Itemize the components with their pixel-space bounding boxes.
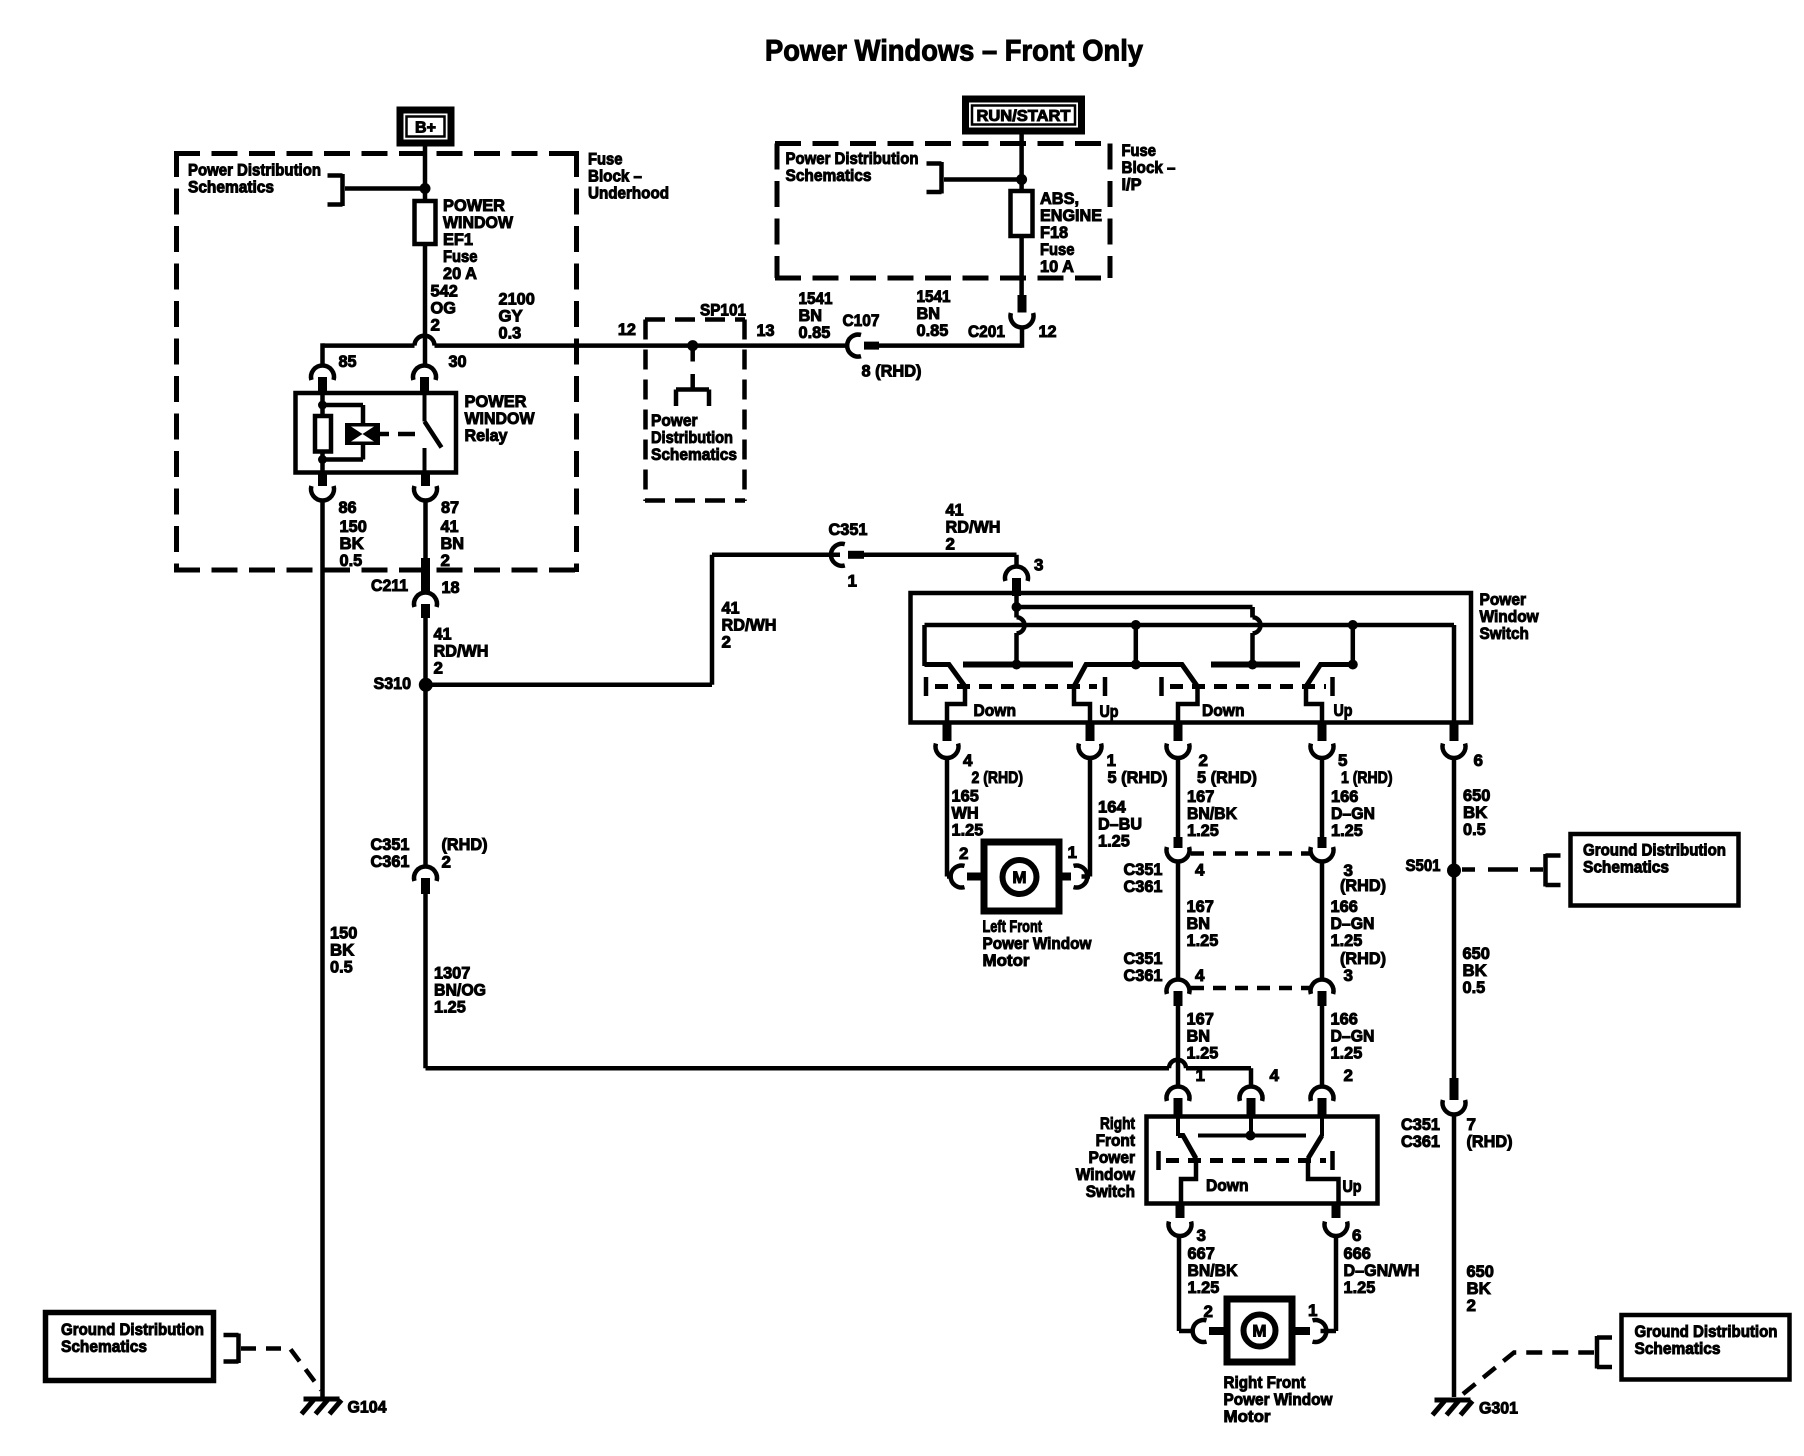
connector C351 C361 row1 left: [1167, 837, 1190, 861]
label wire 41 BN 2: [441, 517, 465, 570]
node junction on B+ wire: [420, 183, 431, 194]
label 8 (RHD): [862, 362, 922, 381]
label wire 166 D-GN 1.25 (mid): [1331, 897, 1375, 950]
svg-text:3: 3: [1344, 966, 1353, 985]
label Fuse Block - I/P: [1122, 141, 1176, 194]
relay box: [296, 393, 457, 473]
dashed link C351 row1: [1191, 851, 1310, 856]
svg-text:6: 6: [1474, 751, 1483, 770]
wire fuse EF1 down to relay pin 30: [423, 244, 428, 366]
wire RF motor to pin 6: [1321, 1236, 1337, 1331]
svg-text:(RHD): (RHD): [1467, 1132, 1513, 1151]
svg-text:1 (RHD): 1 (RHD): [1341, 768, 1393, 787]
label wire 41 RD/WH 2 (branch): [946, 501, 1001, 554]
svg-text:6: 6: [1352, 1226, 1361, 1245]
label Fuse Block - Underhood: [588, 150, 669, 203]
svg-text:G301: G301: [1479, 1399, 1518, 1418]
wire 166 D-GN mid: [1320, 862, 1325, 981]
svg-text:2: 2: [722, 633, 731, 652]
wire C211 to C351 (41 RD/WH): [423, 618, 428, 867]
connector C351 (switch feed): [831, 544, 864, 566]
svg-text:0.5: 0.5: [330, 958, 353, 977]
relay switch contact: [425, 393, 442, 473]
label wire 2100 GY 0.3: [499, 290, 535, 343]
svg-text:4: 4: [1270, 1066, 1280, 1085]
splice SP101 dashed box: [645, 320, 745, 502]
label 2 (RF motor): [1204, 1302, 1213, 1321]
wire corner down to relay pin 85: [320, 343, 325, 366]
svg-text:4: 4: [1195, 966, 1205, 985]
svg-text:5 (RHD): 5 (RHD): [1108, 768, 1168, 787]
label 30: [449, 352, 467, 371]
label wire 150 BK 0.5 (lower): [330, 924, 357, 977]
connector LF motor terminal 2: [951, 866, 985, 888]
crossover hop 1307 over 167: [1169, 1060, 1186, 1069]
svg-text:C351: C351: [829, 520, 868, 539]
connector switch pin 6: [1443, 725, 1466, 758]
svg-text:10 A: 10 A: [1040, 257, 1074, 276]
svg-text:87: 87: [441, 498, 459, 517]
connector RF switch pin 2: [1311, 1087, 1334, 1117]
label 2 (RHD) pin4: [972, 768, 1024, 787]
switch ground bus wire B: [925, 625, 1455, 723]
node ground bus 2: [1348, 620, 1358, 630]
label 1 (RF pin): [1196, 1066, 1205, 1085]
connector C351 C361 (41 RD/WH): [414, 867, 437, 894]
label wire 41 RD/WH 2 (riser): [722, 599, 777, 652]
label 4 (RF pin): [1270, 1066, 1280, 1085]
switch bridge blade (up-down): [1074, 665, 1198, 727]
svg-text:Relay: Relay: [465, 426, 509, 445]
wire relay 87 down: [423, 501, 428, 563]
label Down (RF): [1206, 1176, 1249, 1195]
switch feed leg left: [1017, 607, 1025, 665]
svg-text:1: 1: [1196, 1066, 1205, 1085]
svg-text:1.25: 1.25: [1187, 931, 1219, 950]
label 3 (switch pin): [1034, 556, 1043, 575]
RF motor box: [1227, 1299, 1292, 1362]
label 1 (RHD) pin5: [1341, 768, 1393, 787]
label wire 167 BN 1.25 (mid): [1187, 897, 1219, 950]
svg-text:2: 2: [442, 853, 451, 872]
label Power Distribution Schematics (I/P): [786, 149, 919, 185]
label 12 (C201): [1039, 322, 1057, 341]
connector switch pin 5: [1311, 725, 1334, 758]
svg-text:1.25: 1.25: [1098, 832, 1130, 851]
wire 150 BK relay 86 to G104: [320, 501, 325, 1398]
label wire 650 BK 0.5 (S501): [1463, 944, 1490, 997]
svg-text:C361: C361: [1401, 1132, 1440, 1151]
label wire 1307 BN/OG 1.25: [434, 964, 486, 1017]
svg-text:Underhood: Underhood: [588, 184, 669, 203]
svg-text:1: 1: [1068, 843, 1077, 862]
switch blade left (down): [925, 665, 966, 727]
svg-text:1.25: 1.25: [1344, 1278, 1376, 1297]
svg-text:2: 2: [1467, 1296, 1476, 1315]
svg-text:1.25: 1.25: [1188, 1278, 1220, 1297]
connector RF motor terminal 2: [1193, 1320, 1228, 1342]
connector C351 C361 (650 BK): [1443, 1078, 1466, 1114]
wire switch pin 6 to S501: [1452, 758, 1457, 867]
label C211: [371, 576, 408, 595]
label SP101: [700, 301, 746, 320]
switch ground stub 2: [1351, 625, 1356, 665]
label S310: [374, 674, 412, 693]
relay coil resistor: [315, 416, 331, 452]
switch fixed contact bar down-right: [1211, 662, 1300, 668]
label 5 (RHD) pin2: [1197, 768, 1257, 787]
svg-text:12: 12: [1039, 322, 1057, 341]
svg-text:C361: C361: [1124, 877, 1163, 896]
svg-text:1: 1: [1308, 1301, 1317, 1320]
label 87: [441, 498, 459, 517]
svg-text:Schematics: Schematics: [651, 445, 737, 464]
wire fuse F18 down to C201: [1019, 236, 1024, 296]
svg-text:1.25: 1.25: [1187, 1044, 1219, 1063]
relay coil branch wires: [323, 393, 364, 473]
label wire 667 BN/BK 1.25: [1188, 1244, 1239, 1297]
dashed wire to G301: [1463, 1353, 1594, 1395]
label 1 (RF motor): [1308, 1301, 1317, 1320]
connector relay pin 87: [414, 473, 437, 501]
connector C351 C361 row2 right: [1311, 980, 1334, 1006]
svg-text:C361: C361: [371, 852, 410, 871]
label (RHD) 2: [442, 835, 488, 872]
RF switch blade left: [1178, 1117, 1196, 1204]
svg-text:30: 30: [449, 352, 467, 371]
svg-text:2: 2: [1204, 1302, 1213, 1321]
svg-text:86: 86: [339, 498, 357, 517]
RF motor M circle: [1244, 1315, 1276, 1347]
label 2 (RF pin): [1344, 1066, 1353, 1085]
svg-text:85: 85: [339, 352, 357, 371]
connector RF switch pin 4: [1239, 1087, 1262, 1117]
label wire 166 D-GN 1.25: [1331, 787, 1375, 840]
svg-text:Down: Down: [1206, 1176, 1249, 1195]
svg-text:Switch: Switch: [1480, 624, 1529, 643]
label wire 1541 BN 0.85 (left): [799, 289, 833, 342]
wire horizontal feed to SP101: [323, 343, 849, 348]
label C351 C361 row2: [1124, 949, 1163, 985]
label Power Distribution Schematics (underhood): [188, 161, 321, 197]
svg-text:(RHD): (RHD): [1340, 876, 1386, 895]
label (RHD) 3 row2: [1340, 949, 1386, 985]
node ground stub 1 contact: [1131, 660, 1141, 670]
label Down (right): [1202, 701, 1245, 720]
label G104: [348, 1398, 388, 1417]
label wire 165 WH 1.25: [952, 787, 984, 840]
label 4 (row2): [1195, 966, 1205, 985]
label Ground Distribution Schematics (S501): [1583, 841, 1726, 877]
wire 166 D-GN lower: [1320, 1006, 1325, 1087]
svg-text:2: 2: [959, 844, 968, 863]
connector RF motor terminal 1: [1291, 1320, 1326, 1342]
ground distribution box (S501): [1571, 834, 1739, 906]
svg-text:3: 3: [1034, 556, 1043, 575]
svg-text:(RHD): (RHD): [442, 835, 488, 854]
svg-text:1.25: 1.25: [952, 821, 984, 840]
svg-text:B+: B+: [415, 120, 436, 137]
wire 1307 BN/OG: [426, 894, 1252, 1087]
label C351 C361 (650 BK): [1401, 1115, 1440, 1151]
svg-text:Switch: Switch: [1086, 1182, 1135, 1201]
power symbol B+ box: [400, 110, 451, 143]
svg-text:Schematics: Schematics: [188, 178, 274, 197]
svg-text:1: 1: [848, 572, 857, 591]
svg-text:SP101: SP101: [700, 301, 746, 320]
svg-text:0.5: 0.5: [340, 551, 363, 570]
label Down (left): [974, 701, 1017, 720]
svg-text:1.25: 1.25: [1331, 931, 1363, 950]
label wire 166 D-GN 1.25 (low): [1331, 1010, 1375, 1063]
svg-text:C201: C201: [968, 322, 1005, 341]
svg-text:Schematics: Schematics: [786, 166, 872, 185]
svg-text:Motor: Motor: [1224, 1407, 1271, 1426]
wire bracket to RUN/START node: [944, 177, 1022, 182]
svg-text:M: M: [1252, 1322, 1266, 1341]
svg-text:1.25: 1.25: [434, 998, 466, 1017]
label Up (RF): [1343, 1177, 1362, 1196]
svg-text:Motor: Motor: [983, 951, 1030, 970]
svg-text:Up: Up: [1334, 701, 1353, 720]
connector RF switch pin 3: [1169, 1206, 1192, 1236]
node down contact right: [1248, 660, 1258, 670]
label wire 167 BN 1.25 (low): [1187, 1010, 1219, 1063]
label wire 1541 BN 0.85 (right): [917, 287, 951, 340]
svg-text:Schematics: Schematics: [1583, 858, 1669, 877]
label 3 (RF pin): [1197, 1226, 1206, 1245]
bracket from ground box (G104): [224, 1334, 239, 1364]
RF switch blade right: [1308, 1117, 1339, 1204]
label 1 (C351): [848, 572, 857, 591]
svg-text:0.5: 0.5: [1463, 978, 1486, 997]
label 13 (SP101 right): [757, 321, 775, 340]
svg-text:18: 18: [442, 578, 460, 597]
connector switch pin 2: [1167, 725, 1190, 758]
bracket to power distribution schematics (underhood): [328, 174, 343, 206]
title: [765, 35, 1143, 68]
label wire 150 BK 0.5 (top): [340, 517, 367, 570]
connector switch pin 4: [935, 725, 958, 758]
ground distribution box (G301): [1622, 1315, 1790, 1380]
svg-text:0.85: 0.85: [799, 323, 831, 342]
label Ground Distribution Schematics (G104): [61, 1320, 204, 1356]
svg-text:M: M: [1012, 868, 1026, 887]
RF switch box: [1147, 1117, 1378, 1204]
label 4 (row1): [1195, 861, 1205, 880]
svg-text:0.3: 0.3: [499, 324, 522, 343]
label 1 (LF motor): [1068, 843, 1077, 862]
connector relay pin 86: [311, 473, 334, 501]
switch blade right (up): [1306, 665, 1353, 727]
relay coil symbol: [345, 423, 380, 445]
label 86: [339, 498, 357, 517]
node down contact left: [1012, 660, 1022, 670]
ground distribution box (G104): [46, 1313, 214, 1381]
wire motor to switch pin 1: [1082, 758, 1091, 877]
label wire 167 BN/BK 1.25: [1187, 787, 1238, 840]
label Left Front Power Window Motor: [983, 917, 1093, 970]
connector RF switch pin 1: [1167, 1087, 1190, 1117]
svg-text:Up: Up: [1100, 702, 1119, 721]
svg-text:1.25: 1.25: [1331, 1044, 1363, 1063]
wire S501 down: [1452, 874, 1457, 1080]
node RF feed bar: [1246, 1131, 1256, 1141]
label 3 (RHD) row1: [1340, 861, 1386, 895]
svg-text:1.25: 1.25: [1187, 821, 1219, 840]
switch ground stub 1: [1134, 625, 1139, 665]
svg-text:C361: C361: [1124, 966, 1163, 985]
label wire 650 BK 2: [1467, 1262, 1494, 1315]
node S310: [419, 678, 433, 692]
wire C351 to G301: [1452, 1115, 1457, 1398]
node relay coil bottom: [318, 455, 327, 464]
label Up (right): [1334, 701, 1353, 720]
RF switch feed bar: [1198, 1117, 1306, 1136]
label Up (left): [1100, 702, 1119, 721]
fuse F18 ABS ENGINE 10A: [1011, 191, 1033, 236]
label C351 C361 row1: [1124, 860, 1163, 896]
svg-text:2: 2: [431, 316, 440, 335]
wire switch pin 2 down: [1176, 758, 1181, 838]
node S501: [1447, 864, 1461, 878]
connector LF motor terminal 1: [1058, 866, 1087, 888]
crossover hop at EF1 wire: [415, 336, 435, 346]
svg-text:RUN/START: RUN/START: [977, 108, 1071, 125]
svg-text:Down: Down: [1202, 701, 1245, 720]
label wire 164 D-BU 1.25: [1098, 798, 1142, 851]
svg-text:C211: C211: [371, 576, 408, 595]
svg-text:Schematics: Schematics: [61, 1337, 147, 1356]
label wire 650 BK 0.5 (pin6): [1463, 786, 1490, 839]
svg-text:Up: Up: [1343, 1177, 1362, 1196]
connector C351 C361 row1 right: [1311, 837, 1334, 861]
svg-text:S501: S501: [1406, 856, 1441, 875]
connector C351 C361 row2 left: [1167, 980, 1190, 1006]
wire bracket to B+ node: [345, 186, 425, 191]
power window switch box: [911, 593, 1472, 723]
connector C211 inline: [414, 558, 437, 618]
node SP101 junction: [687, 340, 698, 351]
label 85: [339, 352, 357, 371]
label 18: [442, 578, 460, 597]
label G301: [1479, 1399, 1518, 1418]
svg-text:Schematics: Schematics: [1635, 1339, 1721, 1358]
wire C107 to C201 corner: [879, 327, 1022, 348]
dashed wire S501 to ground box: [1462, 867, 1543, 872]
switch B+ bus wire A: [1017, 596, 1253, 618]
label wire 666 D-GN/WH 1.25: [1344, 1244, 1420, 1297]
label 1 (switch pin): [1107, 751, 1116, 770]
RF actuator dashed: [1159, 1151, 1333, 1170]
label Power Window Switch: [1480, 590, 1540, 643]
svg-text:G104: G104: [348, 1398, 388, 1417]
label POWER WINDOW Relay: [465, 392, 536, 445]
svg-text:4: 4: [1195, 861, 1205, 880]
switch actuator dashed left pair: [926, 677, 1105, 696]
bracket from ground box (G301): [1597, 1336, 1612, 1369]
label 5 (switch pin): [1338, 751, 1347, 770]
label wire 542 OG 2: [431, 282, 458, 335]
node ground stub 2 contact: [1348, 660, 1358, 670]
connector RF switch pin 6: [1325, 1206, 1348, 1236]
svg-text:13: 13: [757, 321, 775, 340]
svg-text:I/P: I/P: [1122, 175, 1142, 194]
bracket from ground box (S501): [1546, 854, 1561, 887]
label 12 (SP101 left): [618, 320, 636, 339]
svg-text:Down: Down: [974, 701, 1017, 720]
svg-text:5 (RHD): 5 (RHD): [1197, 768, 1257, 787]
label C351 C361 (41 RD/WH): [371, 835, 410, 871]
label 4 (switch pin): [963, 751, 973, 770]
wire RUN/START down: [1019, 135, 1024, 193]
wire SP101 stem down: [690, 346, 695, 390]
dashed wire to G104: [241, 1349, 321, 1391]
label wire 41 RD/WH 2 (upper): [434, 625, 489, 678]
svg-text:2: 2: [946, 535, 955, 554]
switch fixed contact bar down-left: [963, 662, 1073, 668]
wire 167 BN lower: [1176, 1006, 1181, 1087]
power symbol RUN/START box: [966, 99, 1082, 131]
node wire A pin3: [1012, 602, 1022, 612]
svg-text:8 (RHD): 8 (RHD): [862, 362, 922, 381]
label Power Distribution Schematics (SP101): [651, 411, 737, 464]
bracket to power distribution schematics (I/P): [927, 162, 942, 194]
label Right Front Power Window Motor: [1224, 1373, 1334, 1426]
wire C351 to switch pin 3: [864, 555, 1017, 567]
svg-text:12: 12: [618, 320, 636, 339]
svg-text:2: 2: [1344, 1066, 1353, 1085]
node junction on RUN/START wire: [1016, 174, 1027, 185]
connector switch pin 1: [1079, 725, 1102, 758]
svg-text:S310: S310: [374, 674, 412, 693]
LF motor box: [984, 842, 1059, 911]
connector switch pin 3: [1005, 567, 1028, 596]
connector relay pin 30: [413, 366, 436, 392]
fork symbol to power distribution: [676, 390, 709, 407]
connector C107 inline: [847, 335, 879, 357]
wire B+ to fuse EF1: [423, 147, 428, 203]
label ABS ENGINE F18 Fuse 10 A: [1040, 189, 1102, 276]
node relay coil top: [318, 401, 327, 410]
LF motor M circle: [1003, 860, 1037, 894]
switch feed leg right: [1253, 607, 1261, 665]
label 2 (LF motor): [959, 844, 968, 863]
svg-text:2: 2: [434, 659, 443, 678]
label 5 (RHD) pin1: [1108, 768, 1168, 787]
svg-text:Power Windows – Front Only: Power Windows – Front Only: [765, 35, 1143, 68]
svg-text:2 (RHD): 2 (RHD): [972, 768, 1024, 787]
label C351 (switch feed): [829, 520, 868, 539]
label 2 (switch pin): [1199, 751, 1208, 770]
ground G301: [1433, 1400, 1473, 1415]
wire switch pin 4 to motor: [947, 758, 952, 877]
wire switch pin 5 down: [1320, 758, 1325, 838]
label Right Front Power Window Switch: [1076, 1114, 1136, 1201]
label POWER WINDOW EF1 Fuse 20 A: [443, 196, 514, 283]
wire 167 BN mid: [1176, 862, 1181, 981]
svg-text:0.85: 0.85: [917, 321, 949, 340]
relay actuator dashes: [380, 432, 415, 437]
label C107: [843, 311, 880, 330]
switch actuator dashed right pair: [1162, 677, 1333, 696]
svg-text:C107: C107: [843, 311, 880, 330]
label S501: [1406, 856, 1441, 875]
label Ground Distribution Schematics (G301): [1635, 1322, 1778, 1358]
svg-text:1.25: 1.25: [1331, 821, 1363, 840]
fuse block I/P dashed box: [775, 144, 1112, 279]
label C201: [968, 322, 1005, 341]
